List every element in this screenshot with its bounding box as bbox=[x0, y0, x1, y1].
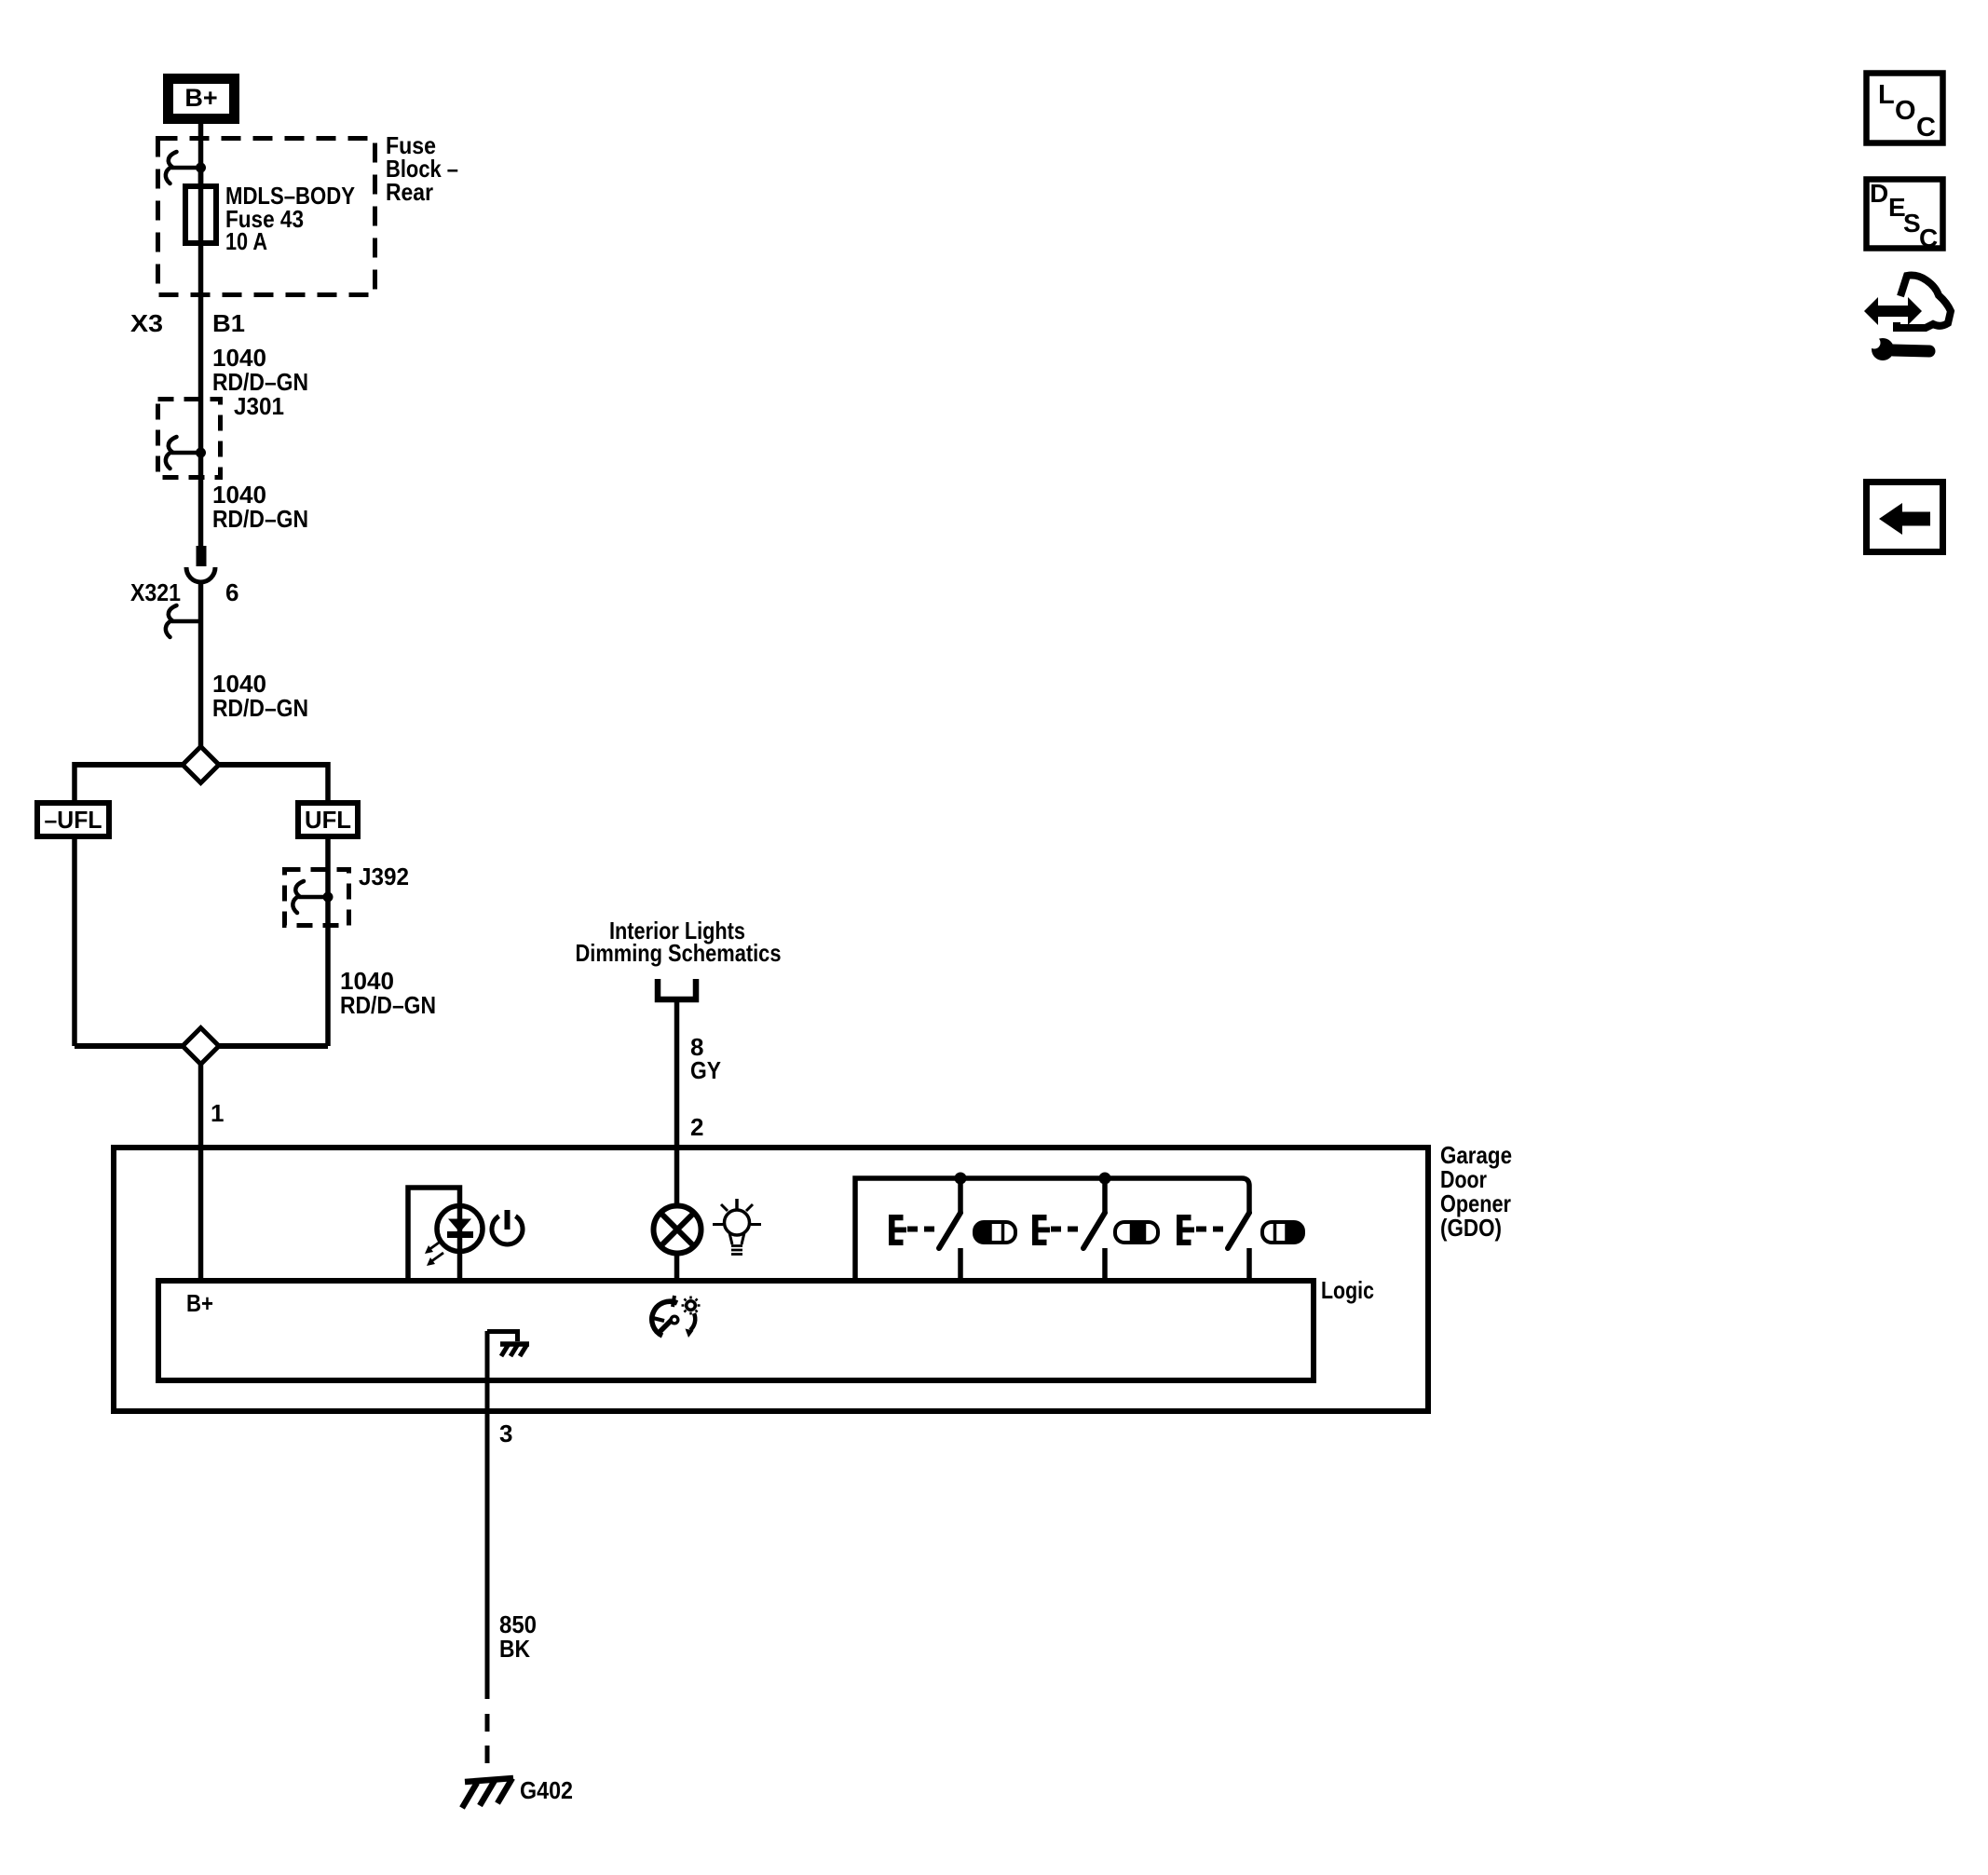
svg-text:B+: B+ bbox=[186, 1289, 213, 1317]
svg-text:–UFL: –UFL bbox=[45, 806, 102, 834]
svg-text:Rear: Rear bbox=[386, 178, 433, 206]
svg-text:G402: G402 bbox=[520, 1776, 573, 1804]
svg-text:D: D bbox=[1870, 179, 1888, 208]
svg-text:X3: X3 bbox=[130, 309, 163, 337]
svg-text:UFL: UFL bbox=[305, 806, 351, 834]
svg-text:Logic: Logic bbox=[1321, 1276, 1374, 1304]
svg-text:L: L bbox=[1878, 80, 1895, 110]
svg-text:RD/D–GN: RD/D–GN bbox=[212, 694, 308, 722]
svg-text:C: C bbox=[1916, 113, 1936, 143]
svg-text:C: C bbox=[1919, 224, 1938, 252]
svg-text:X321: X321 bbox=[130, 578, 181, 606]
svg-text:6: 6 bbox=[225, 578, 238, 606]
svg-text:RD/D–GN: RD/D–GN bbox=[340, 991, 436, 1019]
svg-text:2: 2 bbox=[690, 1113, 703, 1141]
svg-text:1: 1 bbox=[211, 1099, 224, 1127]
svg-text:O: O bbox=[1895, 96, 1916, 126]
svg-text:B+: B+ bbox=[184, 84, 217, 112]
svg-text:RD/D–GN: RD/D–GN bbox=[212, 505, 308, 533]
svg-text:J392: J392 bbox=[359, 863, 409, 890]
svg-text:B1: B1 bbox=[212, 309, 245, 337]
svg-text:(GDO): (GDO) bbox=[1440, 1214, 1502, 1242]
svg-text:BK: BK bbox=[499, 1635, 530, 1663]
svg-text:Dimming Schematics: Dimming Schematics bbox=[576, 939, 782, 967]
svg-text:10 A: 10 A bbox=[225, 227, 267, 255]
svg-text:3: 3 bbox=[499, 1420, 512, 1447]
svg-text:S: S bbox=[1903, 209, 1921, 238]
svg-text:J301: J301 bbox=[234, 392, 284, 420]
svg-text:GY: GY bbox=[690, 1056, 721, 1084]
